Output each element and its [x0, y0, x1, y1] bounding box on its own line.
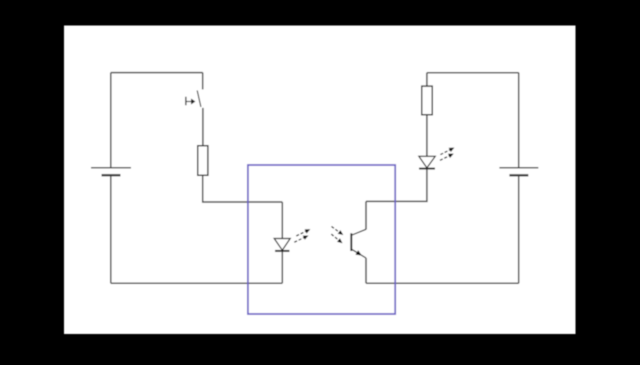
- wire bottom-left horizontal: [111, 282, 282, 284]
- wire switch S1 bottom lead: [202, 108, 204, 145]
- battery V1: [91, 168, 131, 175]
- LED D1: [274, 239, 290, 251]
- phototransistor Q1: [351, 229, 366, 258]
- wire phototransistor Q1 collector lead: [365, 201, 367, 229]
- wire LED D2 cathode to node B: [366, 169, 427, 202]
- white schematic canvas: [64, 26, 576, 335]
- wire bottom-right horizontal: [366, 282, 519, 284]
- wire right vertical (battery V2 negative lead): [518, 175, 520, 283]
- LED D2 light arrows: [440, 148, 454, 161]
- wire resistor R2 top lead: [426, 73, 428, 86]
- wire resistor R1 to node A horizontal: [203, 175, 283, 202]
- wire right vertical (battery V2 positive lead): [518, 73, 520, 168]
- phototransistor Q1 light arrows: [331, 227, 343, 244]
- optocoupler box U1: [248, 165, 395, 314]
- battery V2: [499, 168, 538, 176]
- wire top-right horizontal: [427, 72, 519, 74]
- LED D1 light arrows: [294, 229, 310, 242]
- wire phototransistor Q1 emitter lead: [365, 258, 367, 283]
- wire switch S1 top lead: [202, 73, 204, 90]
- wire LED D1 anode lead: [281, 202, 283, 238]
- wire LED D1 cathode lead: [281, 251, 283, 283]
- wire resistor R2 to LED D2: [426, 115, 428, 156]
- resistor R1: [198, 146, 208, 176]
- switch S1: [186, 91, 201, 107]
- wire left vertical (battery V1 negative lead): [110, 175, 112, 283]
- resistor R2: [422, 86, 432, 115]
- wire left vertical (battery V1 positive lead): [110, 73, 112, 168]
- wire top-left horizontal: [111, 72, 203, 74]
- LED D2: [419, 156, 435, 168]
